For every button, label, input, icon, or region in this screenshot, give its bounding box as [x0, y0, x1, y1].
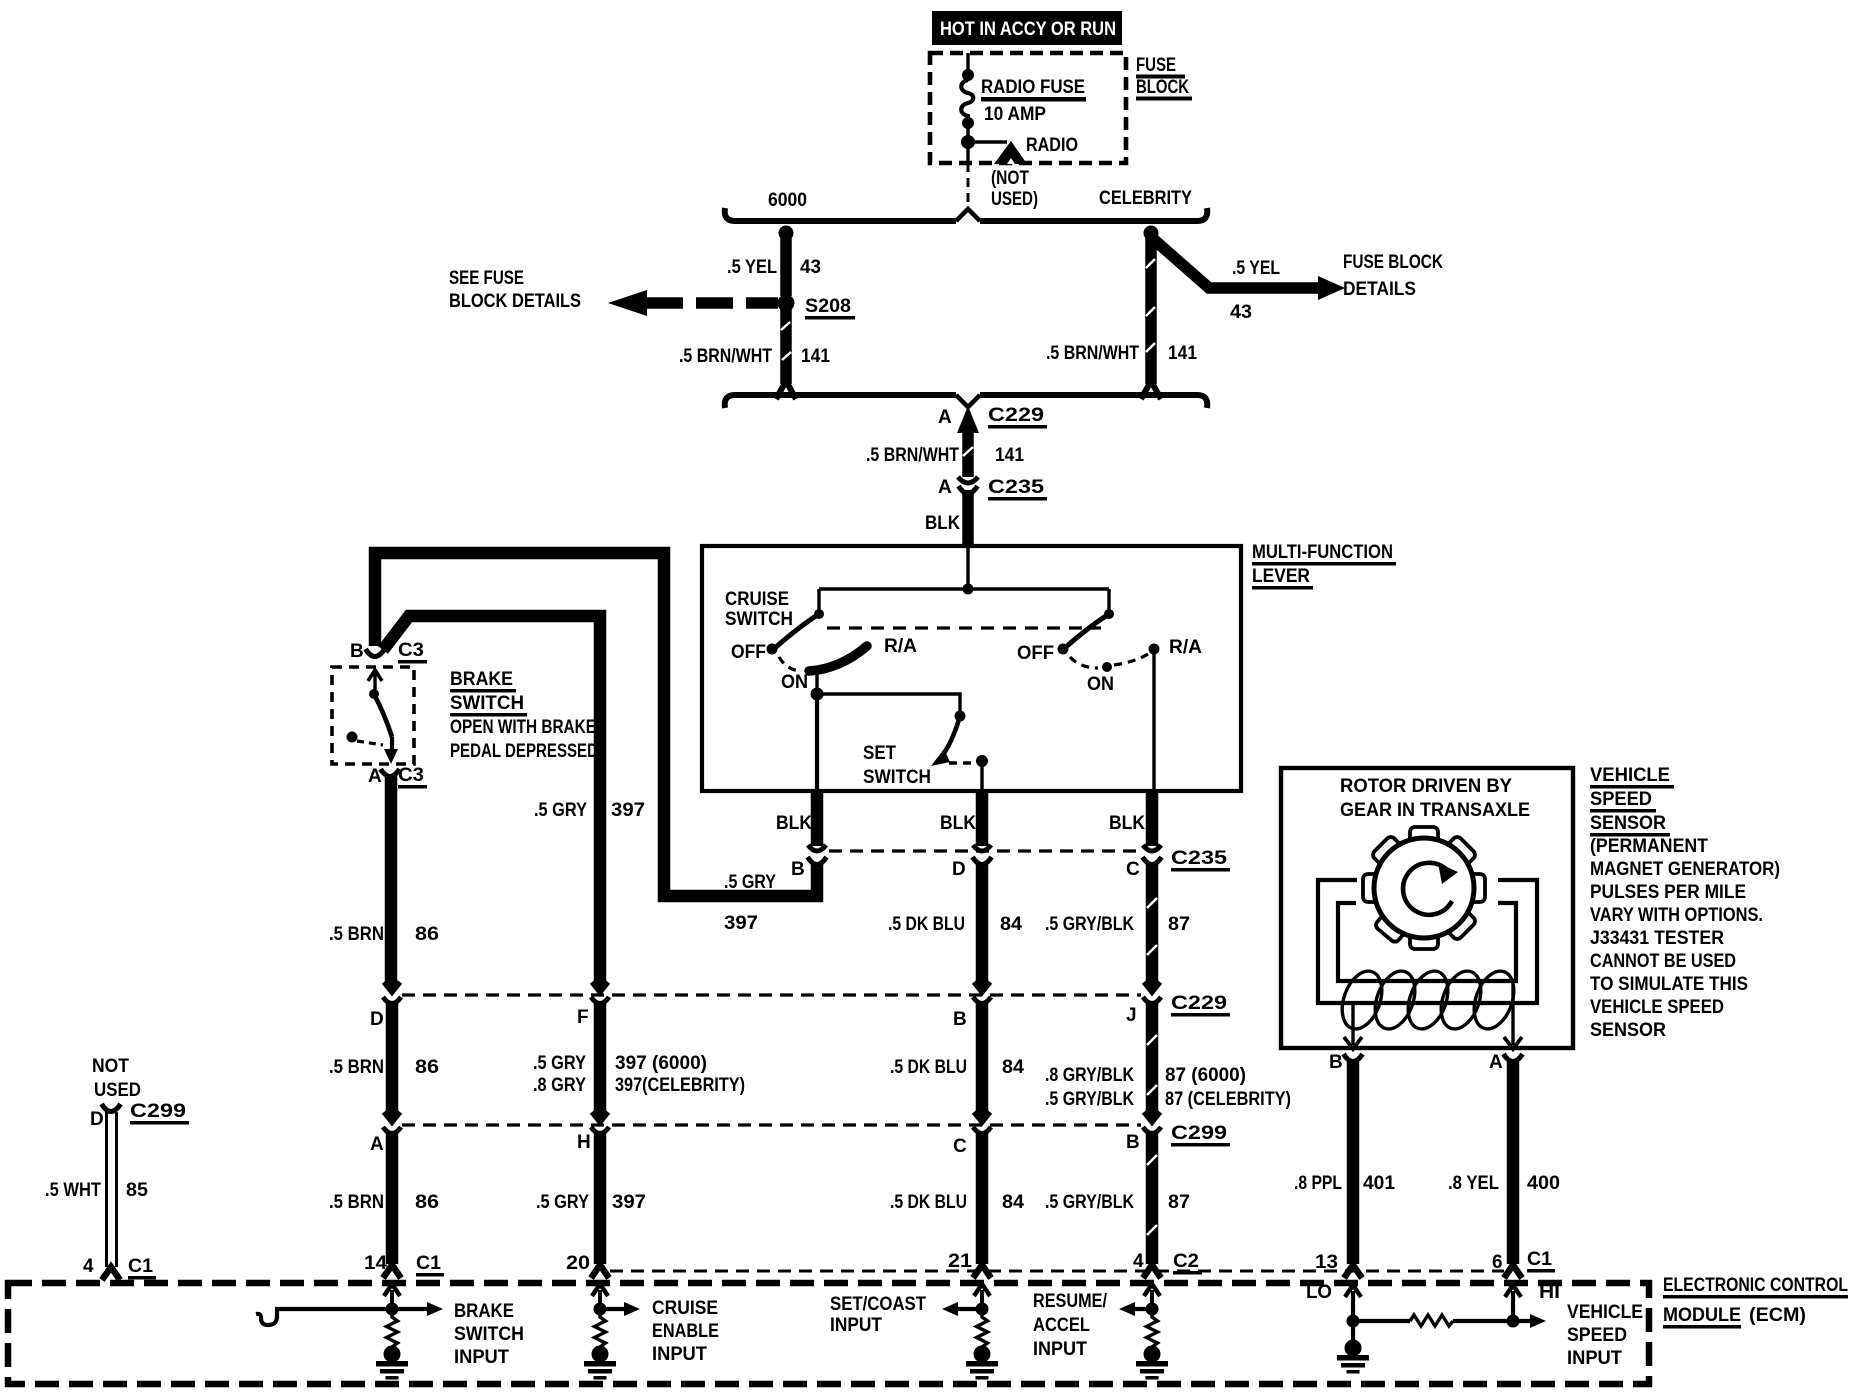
svg-text:INPUT: INPUT: [1567, 1348, 1622, 1369]
.5 GRY/BLK 87 labels (segment 1): [1045, 914, 1190, 935]
svg-text:B: B: [953, 1009, 967, 1030]
.5 BRN/WHT 141 labels (right): [1046, 343, 1197, 364]
pin 4 fork (not used): [102, 1267, 120, 1280]
wire .8 PPL 401: [1347, 1062, 1360, 1264]
brake switch input pull line with curl: [256, 1309, 392, 1325]
C299 crossing pin A: [383, 1112, 401, 1134]
svg-text:BLK: BLK: [925, 513, 960, 534]
svg-text:84: 84: [1002, 1057, 1024, 1078]
svg-text:B: B: [1126, 1132, 1140, 1153]
.5 YEL 43 labels (6000): [727, 257, 821, 278]
svg-text:401: 401: [1363, 1173, 1395, 1194]
svg-text:A: A: [1489, 1052, 1503, 1073]
svg-text:J: J: [1126, 1005, 1137, 1026]
svg-text:C299: C299: [1171, 1123, 1227, 1144]
wire .5 BRN/WHT 141 (6000 side): [776, 303, 796, 399]
pin 14 input arrow: [384, 1284, 400, 1316]
svg-text:.5 BRN: .5 BRN: [329, 1192, 384, 1213]
S208 label: [805, 296, 855, 320]
svg-text:C: C: [1126, 859, 1140, 880]
svg-text:INPUT: INPUT: [652, 1344, 707, 1365]
svg-text:.5 GRY/BLK: .5 GRY/BLK: [1045, 1089, 1134, 1110]
rotor gear teeth: [1363, 827, 1485, 949]
svg-text:85: 85: [126, 1180, 148, 1201]
vehicle speed sensor box: [1281, 768, 1573, 1048]
svg-text:S208: S208: [805, 296, 851, 317]
svg-text:VEHICLE SPEED: VEHICLE SPEED: [1590, 997, 1724, 1018]
brake switch labels: [450, 669, 598, 762]
svg-text:.8 GRY/BLK: .8 GRY/BLK: [1045, 1065, 1134, 1086]
svg-text:TO SIMULATE THIS: TO SIMULATE THIS: [1590, 974, 1748, 995]
connector pin B below sensor: [1344, 1054, 1363, 1062]
svg-text:H: H: [577, 1132, 591, 1153]
svg-text:.5 DK BLU: .5 DK BLU: [888, 914, 965, 935]
svg-text:SWITCH: SWITCH: [863, 767, 931, 788]
set switch label: [863, 743, 931, 788]
svg-text:.5 BRN: .5 BRN: [329, 924, 384, 945]
svg-text:LEVER: LEVER: [1252, 566, 1310, 587]
.5 BRN 86 labels (segment 3): [329, 1192, 439, 1213]
.5 BRN/WHT 141 labels (left): [679, 346, 830, 367]
connector C235 pin C: [1143, 845, 1162, 865]
.5 DK BLU 84 labels (segment 2): [890, 1057, 1024, 1078]
wire .5 DK BLU 84 (segment 2): [976, 1002, 989, 1118]
fuse block label: [1136, 55, 1192, 101]
wire R/A down to box bottom: [1152, 649, 1155, 791]
A / C235 labels: [938, 477, 1047, 501]
pin 4 input arrow: [1144, 1284, 1160, 1316]
svg-text:ON: ON: [1087, 674, 1114, 695]
svg-text:SWITCH: SWITCH: [450, 693, 524, 714]
wire .5 GRY 397 from brake switch to ECM pin 20: [383, 616, 600, 988]
svg-text:C299: C299: [130, 1101, 186, 1122]
svg-text:C2: C2: [1173, 1251, 1199, 1272]
cruise switch left pivot: [814, 589, 824, 619]
not used label: [991, 168, 1038, 210]
C299 label: [1171, 1123, 1230, 1147]
svg-text:A: A: [370, 1134, 384, 1155]
wire from ON junction down to box bottom: [815, 694, 819, 791]
svg-text:SWITCH: SWITCH: [725, 609, 793, 630]
radio fuse label: [981, 77, 1086, 125]
svg-text:A: A: [938, 477, 952, 498]
svg-text:PULSES PER MILE: PULSES PER MILE: [1590, 882, 1746, 903]
svg-text:20: 20: [566, 1253, 590, 1274]
connector D C299 (not used): [102, 1104, 121, 1112]
radio tap wire and arrow (not used): [968, 141, 1027, 164]
C235 label: [1171, 848, 1230, 872]
fuse block dashed box: [930, 53, 1126, 163]
not used label: [92, 1056, 141, 1101]
C229 crossing pin J: [1143, 982, 1161, 1004]
wire .8 YEL 400: [1507, 1062, 1520, 1264]
svg-text:.5 YEL: .5 YEL: [727, 257, 777, 278]
resume/accel input resistor: [1147, 1315, 1158, 1349]
set/coast input resistor: [977, 1315, 988, 1349]
C229 crossing pin D: [383, 982, 401, 1004]
svg-text:D: D: [370, 1009, 384, 1030]
connector pin A below sensor: [1504, 1054, 1523, 1062]
svg-text:B: B: [791, 859, 805, 880]
stator yoke inner: [1338, 903, 1516, 981]
brake switch arm: [374, 694, 392, 737]
svg-text:87: 87: [1168, 914, 1190, 935]
multi-function lever label: [1252, 542, 1396, 590]
wire .5 YEL 43 to fuse block details (celebrity): [1151, 237, 1345, 300]
svg-text:INPUT: INPUT: [1033, 1339, 1087, 1360]
pin 14 fork: [383, 1265, 401, 1278]
svg-text:.5 DK BLU: .5 DK BLU: [890, 1057, 967, 1078]
svg-text:BLOCK: BLOCK: [1136, 77, 1189, 98]
wire .5 DK BLU 84 (segment 3): [976, 1132, 989, 1264]
wire .5 GRY 397 (segment 3): [594, 1132, 607, 1264]
svg-text:.5 WHT: .5 WHT: [45, 1180, 101, 1201]
svg-text:LO: LO: [1306, 1282, 1332, 1303]
stator coil: [1335, 966, 1521, 1035]
svg-text:397(CELEBRITY): 397(CELEBRITY): [615, 1075, 745, 1096]
pin 20 fork: [591, 1265, 609, 1278]
svg-text:B: B: [350, 641, 364, 662]
node CELEBRITY junction: [1144, 226, 1159, 241]
svg-text:CANNOT BE USED: CANNOT BE USED: [1590, 951, 1736, 972]
.5 YEL 43 labels (celebrity): [1230, 258, 1280, 323]
wire .5 DK BLU 84 (segment 1): [976, 862, 989, 988]
set switch right contact: [976, 755, 988, 791]
svg-text:400: 400: [1527, 1173, 1560, 1194]
pin 14 / C1 labels: [364, 1253, 444, 1277]
svg-text:(PERMANENT: (PERMANENT: [1590, 836, 1708, 857]
svg-text:C: C: [953, 1136, 967, 1157]
svg-text:397: 397: [611, 800, 645, 821]
electronic control module label: [1663, 1275, 1848, 1329]
C229 pin labels: [370, 1005, 1137, 1030]
cruise switch left arm to OFF: [776, 614, 819, 647]
vss input resistor and line: [1353, 1314, 1546, 1328]
svg-text:ELECTRONIC CONTROL: ELECTRONIC CONTROL: [1663, 1275, 1848, 1296]
set/coast input arrow left: [942, 1302, 982, 1316]
set/coast input label: [830, 1294, 926, 1336]
svg-text:CRUISE: CRUISE: [725, 589, 789, 610]
svg-text:C235: C235: [988, 477, 1045, 498]
svg-text:OFF: OFF: [1017, 643, 1054, 664]
svg-text:.5 GRY/BLK: .5 GRY/BLK: [1045, 1192, 1134, 1213]
svg-text:.5 BRN/WHT: .5 BRN/WHT: [1046, 343, 1139, 364]
brake switch input resistor: [387, 1315, 398, 1349]
.5 BRN/WHT 141 labels (center): [866, 445, 1024, 466]
svg-text:CRUISE: CRUISE: [652, 1298, 718, 1319]
wire .5 BRN/WHT 141 up-arrow into C229: [957, 406, 979, 477]
svg-text:.5 BRN: .5 BRN: [329, 1057, 384, 1078]
fuse block header HOT IN ACCY OR RUN: [932, 11, 1122, 45]
svg-text:FUSE BLOCK: FUSE BLOCK: [1343, 252, 1443, 273]
svg-text:GEAR IN TRANSAXLE: GEAR IN TRANSAXLE: [1340, 800, 1530, 821]
stator yoke outer: [1318, 880, 1537, 1003]
svg-text:DETAILS: DETAILS: [1343, 279, 1416, 300]
svg-text:R/A: R/A: [884, 636, 917, 657]
wire BLK into lever box: [962, 490, 974, 546]
dashed arrow to SEE FUSE BLOCK DETAILS: [608, 290, 778, 316]
svg-text:.5 BRN/WHT: .5 BRN/WHT: [679, 346, 772, 367]
C229 label: [1171, 993, 1230, 1017]
wire internal bus: [819, 587, 1109, 590]
svg-text:USED: USED: [94, 1080, 141, 1101]
cruise switch right arm to OFF: [1067, 614, 1109, 646]
gry/blk 87 labels (segment 2): [1045, 1065, 1291, 1110]
svg-text:C1: C1: [128, 1256, 153, 1277]
radio fuse element: [961, 53, 974, 136]
svg-text:HOT IN ACCY OR RUN: HOT IN ACCY OR RUN: [940, 19, 1116, 40]
svg-text:.5 DK BLU: .5 DK BLU: [890, 1192, 967, 1213]
pin 4 / C1 labels (not used): [83, 1256, 156, 1280]
dashed arc OFF-ON-R/A (right switch): [1070, 654, 1148, 668]
C299 pin labels: [370, 1132, 1140, 1157]
top bus wire: [725, 208, 1208, 221]
cruise enable input resistor: [595, 1315, 606, 1349]
svg-text:MAGNET GENERATOR): MAGNET GENERATOR): [1590, 859, 1780, 880]
svg-text:MODULE: MODULE: [1663, 1305, 1741, 1326]
svg-text:ROTOR DRIVEN BY: ROTOR DRIVEN BY: [1340, 776, 1512, 797]
C235 pin labels: [791, 859, 1140, 880]
svg-text:BLK: BLK: [940, 813, 976, 834]
svg-text:INPUT: INPUT: [830, 1315, 882, 1336]
svg-text:86: 86: [415, 1057, 439, 1078]
OFF contact (right switch): [1017, 643, 1069, 664]
pin 21 fork: [973, 1265, 991, 1278]
svg-text:.5 GRY/BLK: .5 GRY/BLK: [1045, 914, 1134, 935]
svg-text:BRAKE: BRAKE: [450, 669, 513, 690]
pin 6 / C1 labels: [1492, 1249, 1555, 1273]
svg-text:.5 GRY: .5 GRY: [536, 1192, 589, 1213]
svg-text:SPEED: SPEED: [1590, 789, 1652, 810]
svg-text:FUSE: FUSE: [1136, 55, 1176, 76]
mechanical link dashed: [827, 626, 1101, 629]
svg-text:84: 84: [1000, 914, 1022, 935]
svg-text:F: F: [577, 1007, 589, 1028]
svg-text:BLOCK DETAILS: BLOCK DETAILS: [449, 291, 581, 312]
svg-text:SENSOR: SENSOR: [1590, 1020, 1666, 1041]
svg-text:141: 141: [801, 346, 830, 367]
svg-text:397: 397: [612, 1192, 646, 1213]
brake switch dashed box: [332, 667, 414, 764]
svg-text:C1: C1: [416, 1253, 441, 1274]
wire .5 GRY 397 (segment 2) with 6000/celebrity labels: [594, 1002, 607, 1118]
svg-text:BLK: BLK: [776, 813, 812, 834]
wire .5 BRN 86 (segment 2): [386, 1002, 399, 1118]
svg-text:C3: C3: [398, 640, 424, 661]
svg-text:87 (CELEBRITY): 87 (CELEBRITY): [1165, 1089, 1291, 1110]
fuse block details label (right): [1343, 252, 1443, 300]
svg-text:USED): USED): [991, 189, 1038, 210]
B / C3 labels (top): [350, 640, 427, 664]
pin 13 LO arrow: [1345, 1285, 1361, 1328]
splice S208: [778, 295, 795, 312]
svg-text:C229: C229: [1171, 993, 1227, 1014]
connector C299 dashed line: [402, 1123, 1141, 1126]
.5 DK BLU 84 labels (segment 1): [888, 914, 1022, 935]
node junction inside lever: [963, 546, 974, 595]
C299 crossing pin C: [973, 1112, 991, 1134]
.8 YEL 400 labels: [1448, 1173, 1560, 1194]
svg-text:.5 YEL: .5 YEL: [1232, 258, 1280, 279]
svg-text:.5 GRY: .5 GRY: [533, 1053, 586, 1074]
resume/accel input label: [1033, 1291, 1108, 1360]
multi-function lever box: [702, 546, 1241, 791]
brake switch dashed contact link: [357, 741, 383, 745]
svg-text:4: 4: [1133, 1251, 1144, 1272]
svg-text:B: B: [1329, 1052, 1343, 1073]
svg-text:86: 86: [415, 924, 439, 945]
C229 crossing pin B: [973, 982, 991, 1004]
svg-text:HI: HI: [1539, 1282, 1560, 1303]
connector C235 pin A: [958, 477, 978, 494]
svg-text:CELEBRITY: CELEBRITY: [1099, 188, 1192, 209]
svg-text:.5 BRN/WHT: .5 BRN/WHT: [866, 445, 959, 466]
.5 GRY 397 labels (segment 3): [536, 1192, 646, 1213]
svg-text:4: 4: [83, 1256, 94, 1277]
brake switch arrow down to A: [384, 737, 398, 764]
svg-text:C3: C3: [398, 765, 424, 786]
C299 crossing pin B: [1143, 1112, 1161, 1134]
svg-text:OFF: OFF: [731, 642, 766, 663]
svg-text:C235: C235: [1171, 848, 1228, 869]
set/coast input ground: [966, 1346, 998, 1380]
wire .5 BRN/WHT 141 (celebrity side): [1141, 233, 1161, 399]
svg-text:141: 141: [995, 445, 1024, 466]
svg-text:6000: 6000: [768, 190, 807, 211]
electronic control module dashed box: [8, 1283, 1649, 1384]
.5 GRY 397 labels (upper segment): [534, 800, 645, 821]
set switch arm: [931, 716, 960, 766]
node A / connector C229 labels: [938, 405, 1047, 429]
wire .5 GRY/BLK 87 (segment 3): [1147, 1132, 1157, 1264]
svg-text:BRAKE: BRAKE: [454, 1301, 514, 1322]
rotor rotation arrow: [1403, 863, 1458, 915]
wire .5 BRN 86 brake switch to pin 14 (segment 1): [385, 776, 398, 988]
pin 13 ground: [1337, 1321, 1369, 1374]
svg-text:RADIO FUSE: RADIO FUSE: [981, 77, 1085, 98]
wire .5 GRY/BLK 87 (segment 1): [1147, 862, 1157, 988]
sensor lead A arrow: [1504, 984, 1522, 1049]
C299 crossing pin H: [591, 1112, 609, 1134]
vehicle speed input label: [1567, 1302, 1643, 1369]
rotor gear body: [1374, 838, 1474, 938]
node ON junction (left switch): [811, 666, 824, 701]
bottom bus wire: [725, 395, 1208, 408]
svg-text:ENABLE: ENABLE: [652, 1321, 719, 1342]
wire .5 BRN 86 (segment 3): [386, 1132, 399, 1264]
pin 4 / C2 labels: [1133, 1251, 1202, 1275]
svg-text:OPEN WITH BRAKE: OPEN WITH BRAKE: [450, 717, 596, 738]
svg-text:A: A: [938, 407, 952, 428]
vehicle speed sensor note: [1590, 765, 1780, 1041]
brake switch input arrow right: [392, 1302, 443, 1316]
radio tap node: [961, 135, 975, 149]
pin 4 fork: [1143, 1265, 1161, 1278]
svg-text:.8 PPL: .8 PPL: [1294, 1173, 1342, 1194]
svg-text:R/A: R/A: [1169, 637, 1202, 658]
connector C235 dashed line: [829, 849, 1140, 852]
svg-text:D: D: [90, 1109, 104, 1130]
wire BLK middle below box: [976, 791, 989, 846]
svg-text:SEE FUSE: SEE FUSE: [449, 268, 524, 289]
connector C3 pin A at brake switch: [381, 769, 400, 777]
svg-text:MULTI-FUNCTION: MULTI-FUNCTION: [1252, 542, 1393, 563]
svg-text:86: 86: [415, 1192, 439, 1213]
cruise switch label: [725, 589, 793, 630]
wire gry/blk 87 (segment 2): [1147, 1002, 1157, 1118]
brake switch input ground: [376, 1346, 408, 1380]
svg-text:D: D: [952, 859, 966, 880]
.5 DK BLU 84 labels (segment 3): [890, 1192, 1024, 1213]
svg-text:(ECM): (ECM): [1749, 1305, 1806, 1326]
connector C3 pin B at brake switch: [366, 649, 385, 657]
svg-text:.8 YEL: .8 YEL: [1448, 1173, 1499, 1194]
svg-text:87: 87: [1168, 1192, 1190, 1213]
svg-text:RADIO: RADIO: [1026, 135, 1078, 156]
svg-text:141: 141: [1168, 343, 1197, 364]
pin 20 input arrow: [592, 1284, 608, 1316]
svg-text:INPUT: INPUT: [454, 1347, 509, 1368]
svg-text:SET: SET: [863, 743, 896, 764]
A / C3 labels (bottom): [368, 765, 427, 789]
pin 21 input arrow: [974, 1284, 990, 1316]
dashed wire from fuse block to bus: [967, 163, 970, 211]
wire .5 GRY 397 loop from C235-B to brake switch: [375, 553, 817, 896]
pin 6 HI arrow: [1505, 1285, 1521, 1321]
svg-text:VARY WITH OPTIONS.: VARY WITH OPTIONS.: [1590, 905, 1763, 926]
sensor lead B arrow: [1344, 1003, 1362, 1049]
cruise switch right pivot: [1104, 589, 1114, 619]
svg-text:21: 21: [948, 1251, 972, 1272]
set switch pivot: [955, 711, 966, 722]
svg-text:PEDAL DEPRESSED: PEDAL DEPRESSED: [450, 741, 598, 762]
svg-text:C229: C229: [988, 405, 1044, 426]
pin 6 fork: [1504, 1265, 1522, 1278]
svg-text:43: 43: [1230, 302, 1252, 323]
.5 BRN 86 labels (segment 2): [329, 1057, 439, 1078]
set switch dashed contact: [949, 761, 971, 764]
wire BLK right below box: [1146, 791, 1159, 846]
pin 13 fork: [1344, 1265, 1362, 1278]
svg-text:.5 GRY: .5 GRY: [534, 800, 587, 821]
svg-text:RESUME/: RESUME/: [1033, 1291, 1108, 1312]
svg-text:J33431 TESTER: J33431 TESTER: [1590, 928, 1724, 949]
connector C235 pin B: [808, 845, 827, 865]
svg-text:C1: C1: [1527, 1249, 1552, 1270]
svg-text:ACCEL: ACCEL: [1033, 1315, 1090, 1336]
svg-text:.8 GRY: .8 GRY: [533, 1075, 586, 1096]
svg-text:NOT: NOT: [92, 1056, 129, 1077]
svg-text:43: 43: [800, 257, 821, 278]
svg-text:ON: ON: [781, 672, 808, 693]
connector C235 pin D: [973, 845, 992, 865]
see fuse block details label: [449, 268, 581, 312]
OFF contact (left switch): [731, 642, 778, 663]
ON contact (right switch): [1087, 662, 1114, 695]
svg-text:SWITCH: SWITCH: [454, 1324, 524, 1345]
svg-text:BLK: BLK: [1109, 813, 1145, 834]
cruise enable input label: [652, 1298, 719, 1365]
ECM connector dashed line: [610, 1270, 1504, 1273]
wire from ON junction to set switch: [817, 694, 960, 712]
resume/accel input ground: [1136, 1346, 1168, 1380]
svg-text:VEHICLE: VEHICLE: [1590, 765, 1670, 786]
svg-text:SPEED: SPEED: [1567, 1325, 1627, 1346]
brake switch contact arrow up: [368, 670, 382, 699]
cruise enable input arrow right: [600, 1302, 640, 1316]
not used wire D-C299 to 4-C1: [107, 1112, 117, 1267]
brake switch input label: [454, 1301, 524, 1368]
